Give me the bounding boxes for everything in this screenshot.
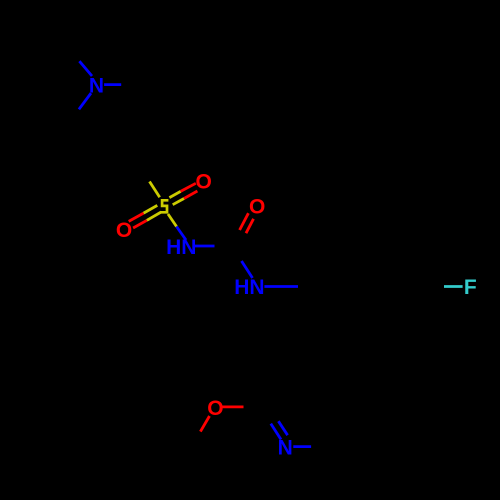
svg-text:F: F — [464, 276, 477, 299]
atom S sulfonyl sulfur — [160, 200, 168, 212]
atom N3 sulfonamide NH label — [166, 236, 196, 259]
bond O4-C(ring) O half — [223, 405, 244, 408]
bond C=O3 right line O half — [246, 219, 254, 233]
bond O4-CH3 O half — [200, 416, 209, 432]
bond S-N(H) N half — [177, 227, 187, 241]
svg-text:HN: HN — [234, 276, 264, 299]
bond S=O2 lower line S half — [147, 212, 161, 220]
bond S=O1 upper line O half — [181, 183, 196, 191]
atom N1 dimethylamino nitrogen — [89, 75, 104, 98]
bond S-CH3 (S half) — [150, 182, 160, 198]
svg-text:N: N — [278, 436, 293, 459]
atom O1 sulfonyl oxygen top-right — [196, 171, 212, 194]
bond S=O2 upper line O half — [129, 213, 144, 221]
bond S=O1 lower line O half — [184, 191, 197, 199]
bond C=O3 left line O half — [240, 213, 249, 230]
bond C2=N2 inner line N half — [278, 421, 287, 435]
bond S-N(H) S half — [168, 214, 177, 227]
bond N3-C(=O) N half — [195, 245, 215, 248]
bond C2=N2 main line N half — [271, 424, 281, 440]
bond S=O1 lower line S half — [173, 199, 184, 205]
atom F fluorine — [464, 276, 477, 299]
bond C(aryl)-F F half — [444, 285, 463, 288]
svg-text:O: O — [116, 219, 132, 242]
bond N1-CH2 lower-left (N half) — [79, 93, 91, 109]
bond N1-CH3 upper-left (N half) — [79, 61, 92, 76]
bond C-N4 N half — [242, 261, 253, 278]
bond N2-C(ring) right N half — [293, 445, 311, 448]
bond S=O2 upper line S half — [144, 205, 158, 213]
atom O2 sulfonyl oxygen left — [116, 219, 132, 242]
bond S=O2 lower line O half — [133, 220, 147, 228]
svg-text:O: O — [207, 397, 223, 420]
bond N4-C(aryl) N half — [264, 285, 298, 288]
svg-text:HN: HN — [166, 236, 196, 259]
bond N1-CH3 right (N half) — [104, 83, 121, 86]
atom N2 pyridine nitrogen — [278, 436, 293, 459]
bond S=O1 upper line S half — [169, 191, 180, 197]
atom O3 urea carbonyl oxygen — [249, 196, 265, 219]
svg-text:O: O — [249, 196, 265, 219]
atom N4 anilide NH label — [234, 276, 264, 299]
atom O4 methoxy oxygen — [207, 397, 223, 420]
svg-text:O: O — [196, 171, 212, 194]
